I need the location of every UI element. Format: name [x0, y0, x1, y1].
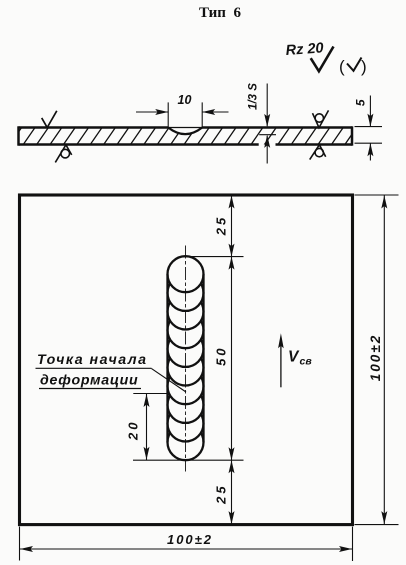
dimension 100±2 (right, vertical) [383, 195, 385, 525]
weld bead straight side walls [166, 274, 168, 442]
svg-text:1/3 S: 1/3 S [248, 83, 260, 110]
specimen plate (plan view square) [20, 195, 353, 525]
roughness check symbol [311, 47, 334, 72]
svg-text:25: 25 [214, 483, 229, 504]
extension lines for 100±2 dimensions [355, 194, 399, 196]
svg-text:Точка начала: Точка начала [37, 352, 148, 368]
welding direction arrow Vсв [280, 338, 282, 387]
dimension line 25/50/25 (vertical at x=231.5) [231, 195, 233, 525]
svg-text:50: 50 [214, 345, 229, 365]
dimension 20 line with arrows [146, 394, 148, 461]
dimension 100±2 (bottom, horizontal) [20, 548, 353, 550]
svg-text:100±2: 100±2 [368, 334, 383, 381]
svg-text:V: V [288, 349, 300, 366]
extension line at bead bottom (tangent) [133, 459, 244, 461]
surface symbol bottom-right (inverted check with circle) [310, 145, 326, 160]
svg-text:100±2: 100±2 [167, 532, 213, 547]
1/3S reference line (dip bottom level) [259, 134, 276, 136]
dimension 10 dimension line and arrows [136, 111, 168, 113]
svg-text:деформации: деформации [40, 373, 138, 389]
plate section hatching [9, 126, 372, 147]
svg-text:5: 5 [354, 99, 368, 106]
dimension 1/3 S line with arrows [266, 84, 268, 127]
surface symbol top-right (check with circle) [313, 110, 329, 127]
surface symbol bottom-left (inverted check with circle) [55, 145, 71, 163]
svg-text:10: 10 [178, 93, 192, 107]
svg-text:Rz 20: Rz 20 [285, 40, 324, 59]
weld pool depression [168, 128, 202, 135]
surface symbol top-left (check) [42, 111, 57, 128]
svg-text:св: св [300, 356, 313, 368]
dimension 10 extension lines [167, 102, 169, 128]
svg-text:20: 20 [126, 420, 141, 441]
svg-text:Тип 6: Тип 6 [199, 5, 241, 21]
plate outline [19, 126, 169, 129]
extension line at bead top [192, 256, 244, 258]
svg-text:25: 25 [214, 215, 229, 236]
dimension 5 extension lines [355, 126, 383, 128]
dimension 20 extension line [133, 393, 170, 395]
dimension 5 line with arrows [369, 96, 371, 127]
svg-text:(: ( [339, 57, 345, 76]
leader line to deformation start point [152, 369, 187, 392]
weld bead axis (center line) [185, 246, 187, 472]
svg-text:): ) [361, 57, 367, 76]
weld bead (overlapping circles, drawn bottom to top) [168, 256, 204, 460]
